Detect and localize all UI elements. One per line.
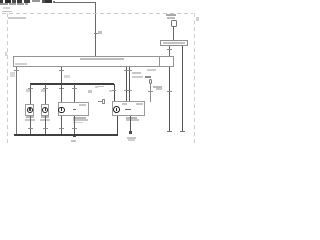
fuse box inner label [80,58,124,61]
motor M1 wire down [29,116,32,135]
relay box K1 (top right) [160,40,188,46]
label row under dashed rail [8,17,26,19]
faint label above dashed border left [2,11,12,13]
terminal symbol lead [98,100,102,103]
relay box K1 label [163,42,185,44]
box B output label line2 [128,139,135,141]
box B left wire down to ground bus corner [116,116,119,135]
diode D1 label above [147,69,156,71]
fan motor A circle [58,107,65,114]
wire fuse to relay box [172,26,175,41]
dashed border right [194,13,195,146]
wire x61.5 bus to fan circle [60,84,63,107]
box A ground wire down [73,116,76,135]
terminal symbol box [102,99,105,104]
main bus horizontal [30,83,115,84]
connector tick pair y90 right [127,89,132,92]
label M1 drop [26,89,30,92]
box B inner label left [122,103,127,105]
terminal label above [95,86,98,88]
wire relay output right (long) [182,46,183,132]
motor M1 circle [27,107,33,113]
box B internal dashed line [121,109,144,112]
wire below diode [149,84,152,102]
box B pin left [125,108,128,111]
box B output label line1 [127,137,136,139]
fuse F1 label line1 [166,14,176,16]
label right of x61.5 wire [64,75,70,79]
faint text row 3 [3,7,10,9]
label M2 drop [41,89,45,92]
main bus turn down to condenser fan [114,84,115,102]
connector tick on bus turn [111,89,116,92]
label right of diode wire line2 [156,88,162,90]
connector tick on far-left wire [14,69,19,72]
label left of far-left wire [10,72,15,77]
dashed border top (hot-at-all-times rail) [2,13,193,14]
wire pair right [128,67,131,109]
box A inner label [79,104,86,106]
wire fusebox out to main bus (x61.5 upper part) [60,67,63,84]
wire relay output left [168,46,171,56]
ground bus bottom [14,134,118,135]
battery positive terminal mark [53,1,56,3]
connector tick below diode [148,90,153,93]
wire battery feed horizontal [55,2,97,3]
connector tick M1 bottom [28,127,33,130]
label right of diode wire line1 [153,86,162,88]
ground label G [71,140,77,142]
connector tick fanA bottom [59,127,64,130]
connector tick pair upper left [124,69,129,72]
wire drop to motor M2 [44,84,47,104]
faint page-left smudge [5,52,7,56]
motor M2 box [41,104,50,116]
node tick on feed wire [94,32,98,35]
wire from fusebox right section down [168,67,171,132]
box A internal dashed line [66,109,89,112]
motor M1 glyph [29,108,30,111]
connector tick x169 bottom [167,130,172,133]
label on feed wire [98,31,103,34]
wire battery feed vertical to fuse box [95,2,96,56]
connector tick pair y90 left [124,89,129,92]
wire x74.5 bus into radiator fan box pin [73,84,76,110]
dashed border left [7,13,8,146]
connector tick M1 drop [28,87,33,90]
connector tick at bottom of right long wire [180,130,185,133]
box B labels below [126,117,137,119]
connector tick M2 drop [43,87,48,90]
connector tick pair upper right [127,69,132,72]
diode D1 pill symbol [149,79,152,85]
ground junction blob [73,136,76,138]
fan motor A wire down [60,116,63,135]
wires from fusebox to condenser fan relay pins (pair) [125,67,128,109]
connector tick ground wire [72,127,77,130]
connector tick on x74.5 [72,87,77,90]
battery B1 menu glyph row top-left [0,0,3,3]
connector C-tick on relay left wire [167,48,172,51]
motor M2 labels [41,116,49,118]
connector tick x169 [167,90,172,93]
box A labels below [73,117,86,119]
motor M1 labels [26,116,34,118]
box B inner label right [136,103,143,105]
wire fusebox out far-left down to ground bus [15,67,18,135]
connector tick M2 bottom [43,127,48,130]
fan motor B circle [113,106,120,113]
connector tick on x61.5 below bus [59,87,64,90]
wire pair label line1 [132,72,141,74]
fuse F1 symbol [171,20,177,27]
terminal label right [109,90,113,92]
fan motor B glyph [116,108,117,111]
box B output end blob [129,131,132,133]
box B pin right [128,108,131,111]
fuse box (long) [13,56,160,67]
wire drop to motor M1 [29,84,32,104]
radiator fan motor box A [58,102,89,116]
fuse F1 label line2 [167,17,175,19]
fuse box right section [159,56,174,67]
motor M2 glyph [45,108,46,111]
fan motor A glyph [61,108,62,111]
connector tick x61.5 [59,69,64,72]
connector label C text [88,90,93,94]
box B output wire down [129,116,132,132]
motor M2 circle [42,107,48,113]
motor M2 wire down [44,116,47,135]
wire pair label line2 [132,76,143,78]
label right border small [196,17,199,21]
fuse box inner label small left [15,63,27,65]
menu text row 2 [0,3,8,5]
motor M1 box [25,104,34,116]
box A pin end [73,109,76,110]
label below bus right [96,86,104,88]
diode D1 label dark [145,76,151,78]
condenser fan motor box B [112,101,146,116]
